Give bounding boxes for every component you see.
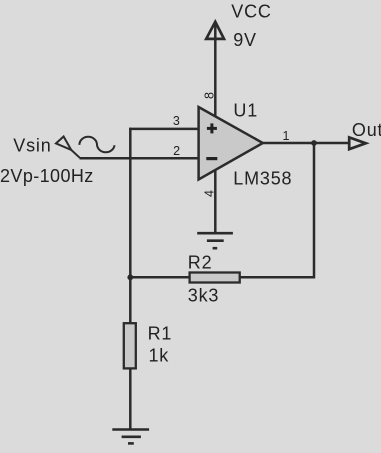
op-amp minus input marker (206, 157, 217, 160)
svg-text:2Vp-100Hz: 2Vp-100Hz (0, 166, 94, 186)
svg-text:Vsin: Vsin (13, 135, 51, 155)
wire U1 pin 1 to output (263, 142, 350, 145)
wire U1 pin 3 (129, 128, 198, 131)
svg-text:9V: 9V (233, 30, 257, 50)
junction node output (311, 140, 317, 146)
source sine symbol (79, 137, 114, 153)
wire left vertical pin3 to feedback node (129, 128, 132, 278)
svg-text:Out: Out (352, 120, 381, 140)
svg-text:1: 1 (283, 129, 290, 143)
power symbol VCC arrow (206, 22, 224, 39)
svg-text:3k3: 3k3 (188, 286, 219, 306)
wire Vsin stub (71, 150, 80, 158)
svg-text:8: 8 (203, 92, 217, 99)
resistor R1 (124, 323, 136, 368)
wire VCC stem to U1 pin 8 (214, 23, 217, 117)
wire R1 top lead (129, 277, 132, 323)
output port flag Out (349, 137, 366, 149)
svg-text:R1: R1 (148, 324, 173, 344)
wire R1 bottom lead (129, 368, 132, 429)
svg-text:1k: 1k (149, 346, 170, 366)
svg-text:LM358: LM358 (233, 169, 292, 189)
svg-text:R2: R2 (188, 253, 213, 273)
wire R2 left lead (130, 276, 189, 279)
svg-text:3: 3 (173, 114, 180, 128)
wire feedback right vertical (240, 143, 314, 277)
svg-text:VCC: VCC (231, 1, 271, 21)
ground below R1 (112, 430, 149, 444)
input port flag Vsin (56, 137, 71, 150)
op-amp plus input marker (207, 123, 217, 133)
resistor R2 (190, 273, 240, 283)
op-amp U1 (199, 107, 263, 180)
wire Vsin to U1 pin 2 (80, 157, 199, 160)
svg-text:U1: U1 (233, 101, 258, 121)
junction node feedback (127, 274, 133, 280)
ground below U1 (197, 233, 233, 248)
wire U1 pin 4 to ground (214, 170, 217, 233)
svg-text:2: 2 (173, 144, 180, 158)
